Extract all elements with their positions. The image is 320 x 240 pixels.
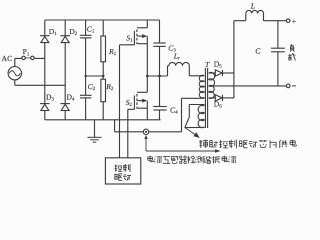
wire AC top lead bbox=[15, 58, 22, 66]
wire S1 drain leg bbox=[146, 20, 148, 28]
wire node to C2 bbox=[85, 76, 87, 95]
wire bridge branch A lower bbox=[44, 111, 46, 120]
label D2 bbox=[69, 27, 77, 37]
wire bridge branch B middle bbox=[64, 43, 66, 104]
wire S2 source leg bbox=[146, 101, 148, 120]
label L bbox=[250, 2, 255, 11]
wire AC bottom lead bbox=[15, 80, 65, 85]
transistor S1 bbox=[134, 28, 147, 45]
diode D2 bbox=[60, 36, 70, 43]
diode D3 bbox=[40, 104, 50, 111]
current transformer sense point bbox=[143, 129, 148, 134]
resistor R2 bbox=[101, 79, 106, 102]
svg-text:L: L bbox=[250, 2, 255, 11]
wire C2 bottom lead bbox=[85, 98, 87, 120]
capacitor C3 bbox=[153, 43, 165, 46]
wire L to plus terminal bbox=[264, 20, 287, 22]
label D1 bbox=[49, 27, 57, 37]
wire R1 to node bbox=[102, 62, 104, 79]
label C2 bbox=[88, 82, 96, 92]
label load bbox=[288, 44, 295, 60]
transformer T core bbox=[205, 68, 207, 128]
wire rectifier output leg bbox=[233, 21, 235, 98]
capacitor C bbox=[271, 48, 285, 52]
wire divider node link bbox=[86, 75, 104, 77]
node C-divider junction bbox=[84, 75, 86, 77]
label C3 bbox=[168, 44, 176, 54]
wire C top lead bbox=[277, 21, 279, 49]
wire secondary top lead bbox=[209, 72, 216, 74]
AC source V1 bbox=[2, 54, 22, 80]
arrow aux supply annotation bbox=[185, 128, 200, 138]
wire C3 bottom lead bbox=[159, 46, 161, 76]
wire bridge branch A middle bbox=[44, 43, 46, 104]
wire aux winding top lead bbox=[185, 105, 205, 128]
label S2 bbox=[126, 98, 133, 108]
diode D5 bbox=[215, 70, 222, 76]
switch P1 bbox=[22, 56, 34, 59]
wire bridge branch B upper bbox=[64, 20, 66, 36]
label T bbox=[205, 60, 210, 69]
arrow CT annotation vertical bbox=[144, 135, 147, 151]
svg-text:C: C bbox=[255, 47, 261, 56]
arrow CT annotation horizontal bbox=[146, 149, 221, 152]
capacitor C4 bbox=[153, 107, 166, 111]
text current-transformer annotation bbox=[148, 156, 237, 164]
label D4 bbox=[67, 93, 75, 103]
wire sense line to transformer bbox=[149, 131, 182, 133]
transistor S2 bbox=[134, 92, 147, 109]
wire top bus rail bbox=[45, 19, 160, 21]
wire output return rail bbox=[209, 85, 286, 87]
wire primary bottom return bbox=[182, 97, 205, 131]
inductor Lr bbox=[168, 62, 190, 76]
label D6 bbox=[214, 99, 222, 109]
diode D1 bbox=[40, 36, 50, 43]
wire S2 drain leg bbox=[146, 76, 148, 92]
resistor R1 bbox=[101, 36, 106, 62]
transformer T secondary lower bbox=[209, 85, 214, 98]
capacitor C1 bbox=[80, 35, 92, 38]
block control-drive unit bbox=[105, 158, 140, 184]
wire C4 bottom lead bbox=[159, 110, 161, 120]
transformer T primary bbox=[199, 75, 204, 98]
transformer T secondary upper bbox=[209, 72, 215, 86]
node C3-C4 junction bbox=[158, 75, 161, 78]
wire C4 top lead bbox=[159, 76, 161, 107]
wire S2 gate lead bbox=[128, 109, 135, 158]
wire C bottom lead bbox=[277, 52, 279, 86]
label C1 bbox=[87, 24, 95, 34]
wire aux winding bottom lead bbox=[185, 126, 205, 128]
text aux supply annotation bbox=[199, 140, 296, 149]
diode D4 bbox=[60, 104, 70, 111]
svg-text:AC: AC bbox=[2, 54, 13, 63]
wire bridge branch A upper bbox=[44, 20, 46, 36]
wire D6 cathode lead bbox=[223, 97, 234, 99]
wire bridge branch B lower bbox=[64, 111, 66, 120]
wire R2 bottom lead bbox=[102, 102, 104, 120]
label R2 bbox=[105, 82, 114, 92]
capacitor C2 bbox=[80, 95, 92, 98]
terminal minus bbox=[286, 84, 296, 88]
ground bbox=[88, 120, 102, 142]
node R-divider junction bbox=[102, 75, 105, 78]
label C bbox=[255, 47, 261, 56]
terminal plus bbox=[286, 17, 296, 26]
wire switch to bridge bbox=[34, 57, 45, 59]
wire S1 gate lead bbox=[120, 45, 135, 158]
node half-bridge midpoint bbox=[146, 75, 149, 78]
svg-text:+: + bbox=[292, 17, 297, 26]
wire C1 to node bbox=[85, 38, 87, 76]
label D5 bbox=[214, 60, 222, 70]
wire Lr to primary bbox=[189, 75, 204, 77]
wire midpoint rail bbox=[147, 75, 167, 77]
label D3 bbox=[46, 93, 54, 103]
wire C1 top lead bbox=[85, 20, 87, 35]
wire secondary lower lead bbox=[209, 97, 216, 99]
label S1 bbox=[126, 34, 133, 44]
wire sense line from bottom rail bbox=[115, 120, 144, 132]
label R1 bbox=[108, 47, 117, 57]
wire bottom bus rail bbox=[45, 119, 161, 121]
label Lr bbox=[173, 52, 180, 62]
label P1 bbox=[23, 47, 30, 57]
wire S1 source leg bbox=[146, 36, 148, 76]
inductor L bbox=[234, 10, 264, 20]
diode D6 bbox=[215, 95, 222, 101]
transformer aux winding bbox=[198, 105, 204, 127]
wire C3 top lead bbox=[159, 20, 161, 43]
wire R1 top lead bbox=[102, 20, 104, 36]
label C4 bbox=[170, 106, 178, 116]
wire D5 cathode lead bbox=[223, 72, 234, 74]
